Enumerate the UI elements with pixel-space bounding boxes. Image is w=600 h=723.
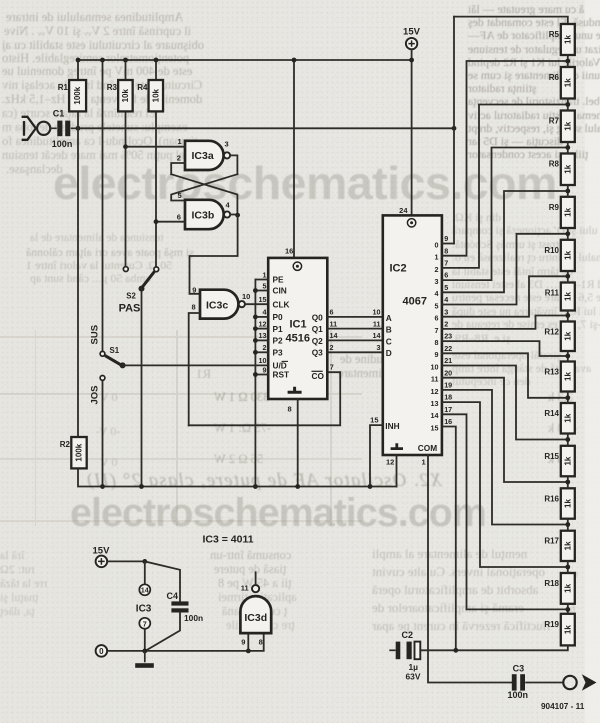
svg-text:11: 11: [431, 375, 439, 384]
svg-text:11: 11: [330, 319, 338, 328]
resistor R18 1k: [544, 573, 574, 604]
junction JOS column on rail: [100, 484, 105, 489]
svg-text:8: 8: [288, 405, 292, 414]
junction R4 bottom / IC3b pin6: [154, 219, 159, 224]
svg-text:2: 2: [177, 153, 181, 162]
S2 contact (R4 side): [154, 267, 159, 272]
IC1 left pin stubs: [255, 279, 268, 281]
svg-text:6: 6: [444, 271, 448, 280]
svg-text:1k: 1k: [563, 121, 572, 130]
svg-text:9: 9: [263, 365, 267, 374]
svg-text:9: 9: [444, 234, 448, 243]
svg-text:15: 15: [259, 295, 267, 304]
wire Q3 to IC2 address D: [327, 351, 383, 353]
svg-text:SUS: SUS: [90, 325, 101, 345]
svg-text:5: 5: [435, 301, 439, 310]
svg-text:8: 8: [259, 637, 263, 646]
svg-text:R3: R3: [107, 83, 118, 92]
svg-text:R10: R10: [544, 246, 559, 255]
svg-text:S2: S2: [126, 292, 136, 301]
wire channel 14 (pin 17) to ladder tap: [442, 414, 568, 609]
S1 common pivot: [120, 362, 126, 368]
svg-text:JOS: JOS: [90, 385, 101, 404]
wire ladder bottom to C2 node: [420, 645, 568, 650]
IC2 power symbol pin24: [407, 219, 415, 227]
IC U1 counter IC1 4516: [268, 258, 327, 399]
junction IC1 pin8 on rail: [295, 484, 300, 489]
svg-text:4516: 4516: [286, 333, 310, 345]
svg-text:22: 22: [444, 344, 452, 353]
svg-text:Q3: Q3: [312, 348, 323, 358]
svg-text:7: 7: [330, 362, 334, 371]
input jack terminal: [37, 122, 50, 135]
svg-text:9: 9: [241, 637, 245, 646]
resistor R9 1k: [549, 197, 575, 228]
junction ground node: [142, 649, 147, 654]
S1 lower contact JOS: [100, 376, 105, 381]
svg-text:15: 15: [431, 423, 439, 432]
svg-text:Q1: Q1: [312, 324, 323, 334]
svg-text:1µ: 1µ: [409, 662, 419, 672]
wire R3 column: [125, 60, 127, 80]
wire 15V to IC3 pin14 node: [107, 560, 145, 562]
svg-text:7: 7: [444, 259, 448, 268]
svg-text:C1: C1: [53, 109, 65, 119]
svg-text:IC3: IC3: [136, 604, 152, 615]
svg-text:6: 6: [330, 308, 334, 317]
wire S2 common to ground rail: [141, 289, 143, 487]
wire IC3c pin8 from CO feedback: [189, 313, 200, 425]
ground bottom rail: [78, 468, 397, 486]
wire channel 15 (pin 16) to ladder bottom: [442, 427, 456, 651]
svg-text:15: 15: [370, 416, 378, 425]
svg-text:R7: R7: [549, 117, 560, 126]
junction bus P1: [253, 326, 258, 331]
watermark row 1: [53, 156, 557, 210]
resistor R13 1k: [544, 362, 574, 392]
svg-text:IC3b: IC3b: [192, 209, 215, 221]
svg-text:A: A: [386, 313, 392, 323]
wire channel 6 (pin 3) to ladder tap: [442, 276, 568, 316]
wire Q2 to IC2 address C: [327, 339, 383, 341]
wire IC3c output to IC1 CLK: [246, 303, 268, 305]
wire IC3b pin6 input from R4: [156, 221, 185, 223]
svg-text:R13: R13: [544, 368, 559, 377]
junction bus P2: [253, 338, 258, 343]
wire IC1 pin16 riser from +15V rail: [293, 60, 295, 258]
svg-text:R8: R8: [549, 160, 560, 169]
wire channel 10 (pin 21) to ladder tap: [442, 366, 568, 440]
wire SUS column (+15V to S1 upper contact): [102, 60, 104, 351]
svg-text:IC1: IC1: [290, 319, 307, 331]
svg-text:1k: 1k: [563, 372, 572, 381]
junction S2 column on rail: [139, 484, 144, 489]
resistor R2 100k: [60, 437, 87, 468]
svg-text:10: 10: [259, 356, 267, 365]
wire ladder interconnect stubs: [567, 55, 569, 67]
IC3 pin 14 terminal: [144, 561, 146, 584]
svg-text:7: 7: [143, 619, 147, 628]
svg-text:R14: R14: [544, 409, 559, 418]
svg-text:RST: RST: [273, 370, 290, 380]
svg-text:PAS: PAS: [119, 303, 141, 315]
15V supply terminal: [406, 38, 417, 49]
svg-text:15V: 15V: [403, 27, 421, 38]
junction bus on ground rail: [253, 484, 258, 489]
wire IC3d pin9 stub: [247, 633, 249, 651]
svg-text:2: 2: [263, 343, 267, 352]
wire 15V riser to IC2 pin 24: [411, 49, 413, 215]
junction SUS column on rail: [100, 58, 105, 63]
svg-text:14: 14: [330, 331, 338, 340]
svg-text:CLK: CLK: [273, 299, 290, 309]
resistor R17 1k: [544, 531, 574, 561]
resistor R15 1k: [544, 446, 574, 477]
wire 0V ground line: [107, 633, 264, 651]
svg-text:6: 6: [177, 213, 181, 222]
svg-text:12: 12: [386, 458, 394, 467]
svg-text:1k: 1k: [563, 541, 572, 550]
wire supply node to C4: [145, 561, 180, 601]
svg-text:1k: 1k: [563, 456, 572, 465]
svg-text:1k: 1k: [563, 292, 572, 301]
svg-text:R12: R12: [544, 328, 559, 337]
junction R3 top on rail: [123, 58, 128, 63]
junction pin16 riser on rail: [292, 58, 297, 63]
svg-text:20: 20: [444, 368, 452, 377]
resistor R12 1k: [544, 322, 574, 352]
svg-text:R6: R6: [549, 73, 560, 82]
svg-text:R15: R15: [544, 452, 559, 461]
junction ladder tap: [565, 522, 570, 527]
watermark row 2: [70, 491, 486, 536]
IC1 power symbol pin16: [293, 262, 301, 270]
wire COM output to C3: [428, 455, 511, 683]
svg-text:1: 1: [435, 253, 439, 262]
svg-text:R17: R17: [544, 537, 559, 546]
svg-text:R11: R11: [545, 289, 560, 298]
svg-text:14: 14: [373, 331, 381, 340]
junction IC3d pin9: [246, 649, 251, 654]
svg-text:1k: 1k: [563, 499, 572, 508]
output jack terminal: [563, 676, 576, 689]
svg-text:12: 12: [431, 387, 439, 396]
wire cross-coupling diagonal IC3a.out to IC3b.5: [171, 174, 237, 200]
junction ladder tap: [565, 354, 570, 359]
NAND gate IC3a: [185, 141, 230, 170]
svg-text:R18: R18: [544, 579, 559, 588]
svg-text:16: 16: [285, 247, 293, 256]
svg-text:10: 10: [373, 308, 381, 317]
svg-text:R2: R2: [60, 440, 71, 449]
junction ladder tap: [565, 607, 570, 612]
svg-text:CIN: CIN: [273, 286, 287, 296]
input arrow symbol: [22, 117, 36, 140]
svg-text:C4: C4: [167, 591, 179, 601]
junction ladder tap: [565, 274, 570, 279]
wire cross-coupling diagonal IC3b.out to IC3a.2: [171, 174, 237, 215]
svg-text:0: 0: [99, 647, 104, 656]
resistor R11 1k: [545, 283, 575, 311]
junction ladder tap: [565, 313, 570, 318]
svg-text:4: 4: [263, 308, 267, 317]
+15V top supply rail: [78, 59, 412, 61]
junction ladder tap: [565, 59, 570, 64]
svg-text:100n: 100n: [508, 690, 529, 700]
wire IC3a pin1 input from R3: [126, 146, 186, 148]
svg-text:9: 9: [435, 350, 439, 359]
capacitor C3 100n: [512, 674, 564, 690]
wire channel 9 (pin 22) to ladder tap: [442, 353, 568, 398]
wire IC3b output to IC3c pin9: [231, 214, 238, 216]
svg-text:PE: PE: [273, 275, 285, 285]
svg-text:904107 - 11: 904107 - 11: [541, 702, 585, 711]
capacitor C1 100n: [50, 121, 77, 137]
wire channel 7 (pin 2) to ladder tap: [442, 316, 568, 329]
svg-text:10: 10: [242, 292, 250, 301]
svg-text:D: D: [386, 348, 392, 358]
svg-text:R19: R19: [544, 620, 559, 629]
svg-text:14: 14: [431, 411, 439, 420]
switch S2 arm: [142, 272, 154, 288]
svg-text:IC3 = 4011: IC3 = 4011: [203, 534, 254, 546]
svg-text:10k: 10k: [121, 88, 130, 102]
svg-text:P2: P2: [273, 336, 284, 346]
wire IC1 preset/reset bus to ground: [254, 280, 256, 487]
wire signal node line (C1 junction to ladder top): [78, 127, 454, 129]
svg-text:1k: 1k: [563, 331, 572, 340]
wire R1/R2 column: [77, 60, 79, 80]
svg-text:5: 5: [178, 191, 182, 200]
svg-text:100n: 100n: [184, 613, 203, 623]
junction R3 bottom / IC3a pin1: [123, 144, 128, 149]
ground symbol: [135, 651, 154, 668]
junction node X at channel-0 riser: [452, 126, 457, 131]
svg-text:13: 13: [431, 399, 439, 408]
wire IC3a pin2 input leg: [171, 163, 185, 174]
wire pin7 to ground node: [144, 629, 146, 651]
resistor R8 1k: [549, 154, 575, 186]
wire IC1 pin8 to ground rail: [297, 399, 299, 487]
svg-text:100k: 100k: [75, 443, 84, 461]
svg-text:R1: R1: [58, 83, 69, 92]
junction R4 top on rail: [154, 58, 159, 63]
wire IC2 pin12 to ground rail: [396, 455, 398, 487]
svg-text:9: 9: [192, 285, 196, 294]
S2 contact (R3 side): [123, 267, 128, 272]
svg-text:P1: P1: [273, 324, 284, 334]
svg-text:10: 10: [431, 362, 439, 371]
NAND gate IC3b: [185, 200, 230, 229]
junction INH on ground rail: [368, 484, 373, 489]
svg-text:1k: 1k: [563, 583, 572, 592]
svg-text:6: 6: [435, 314, 439, 323]
svg-text:63V: 63V: [406, 672, 421, 682]
svg-text:P3: P3: [273, 348, 284, 358]
svg-text:5: 5: [263, 281, 267, 290]
svg-text:B: B: [386, 325, 392, 335]
resistor R19 1k: [544, 614, 574, 646]
junction bus P0: [253, 315, 258, 320]
svg-text:8: 8: [192, 303, 196, 312]
svg-text:1k: 1k: [563, 625, 572, 634]
svg-text:3: 3: [225, 139, 229, 148]
svg-text:1: 1: [263, 270, 267, 279]
svg-text:1: 1: [422, 458, 426, 467]
svg-text:1k: 1k: [563, 164, 572, 173]
junction ladder tap: [565, 145, 570, 150]
svg-text:8: 8: [435, 338, 439, 347]
svg-text:7: 7: [435, 326, 439, 335]
svg-text:4067: 4067: [403, 296, 427, 308]
wire Q0 to IC2 address A: [327, 316, 383, 318]
svg-text:3: 3: [435, 277, 439, 286]
svg-text:13: 13: [259, 331, 267, 340]
svg-text:0: 0: [435, 240, 439, 249]
0V terminal: [96, 645, 108, 657]
svg-text:R16: R16: [544, 494, 559, 503]
junction IC3 supply node: [142, 559, 147, 564]
junction ladder bottom / ch15: [453, 648, 458, 653]
svg-text:11: 11: [373, 319, 381, 328]
capacitor C4 100n: [171, 601, 188, 612]
svg-text:5: 5: [444, 283, 448, 292]
S1 upper contact SUS: [100, 351, 105, 356]
resistor R7 1k: [549, 111, 575, 143]
svg-text:P0: P0: [273, 312, 284, 322]
wire channel 13 (pin 18) to ladder tap: [442, 402, 568, 567]
wire channel 8 (pin 23) to ladder tap: [442, 341, 568, 356]
resistor R3 10k: [107, 80, 133, 111]
resistor R10 1k: [544, 240, 574, 271]
svg-text:23: 23: [444, 332, 452, 341]
svg-text:1k: 1k: [563, 250, 572, 259]
svg-text:Q0: Q0: [312, 312, 323, 322]
svg-text:8: 8: [444, 246, 448, 255]
wire channel 11 (pin 20) to ladder tap: [442, 378, 568, 482]
junction ladder tap: [565, 189, 570, 194]
svg-text:17: 17: [444, 405, 452, 414]
svg-text:2: 2: [330, 343, 334, 352]
wire C4 to ground node: [147, 613, 181, 651]
svg-text:R5: R5: [549, 30, 560, 39]
svg-text:14: 14: [141, 586, 149, 595]
svg-text:R4: R4: [137, 83, 148, 92]
junction R1 top on rail: [76, 58, 81, 63]
svg-text:4: 4: [444, 295, 448, 304]
svg-text:100n: 100n: [52, 139, 73, 149]
svg-text:12: 12: [259, 319, 267, 328]
junction IC3b output node: [235, 213, 240, 218]
resistor R4 10k: [137, 80, 163, 111]
svg-text:2: 2: [444, 320, 448, 329]
svg-text:1k: 1k: [563, 78, 572, 87]
svg-text:3: 3: [377, 343, 381, 352]
junction ladder tap: [565, 480, 570, 485]
junction bus P3: [253, 350, 258, 355]
resistor R6 1k: [549, 67, 575, 99]
NAND gate IC3c: [200, 290, 245, 319]
svg-text:16: 16: [444, 417, 452, 426]
svg-text:1k: 1k: [563, 207, 572, 216]
wire IC3a output leg: [231, 155, 238, 174]
svg-text:R9: R9: [549, 203, 560, 212]
wire channel 4 (pin 5) to ladder tap: [442, 191, 568, 292]
svg-text:21: 21: [444, 356, 452, 365]
IC3 pin 7 terminal: [139, 618, 150, 629]
resistor R16 1k: [544, 488, 574, 518]
IC U2 multiplexer IC2 4067: [383, 215, 442, 455]
wire channel 3 (pin 6) to ladder tap: [442, 148, 568, 281]
wire channel 0 (pin 9) to ladder top / node X: [442, 243, 454, 245]
svg-text:10k: 10k: [151, 88, 160, 102]
svg-text:18: 18: [444, 393, 452, 402]
svg-text:4: 4: [435, 289, 439, 298]
wire JOS column (S1 lower contact to ground): [102, 380, 104, 486]
svg-text:S1: S1: [110, 346, 120, 355]
svg-text:2: 2: [435, 265, 439, 274]
wire IC1 CO feedback line: [189, 372, 341, 425]
switch S1 arm: [105, 356, 121, 365]
svg-text:1k: 1k: [563, 35, 572, 44]
svg-text:C3: C3: [513, 664, 525, 674]
IC2 ground symbol: [391, 443, 403, 448]
svg-text:3: 3: [444, 307, 448, 316]
S2 common pivot: [139, 286, 145, 292]
wire S1 common to IC1 U/D pin: [123, 364, 269, 366]
capacitor C2 1u electrolytic: [389, 642, 420, 660]
wire channel 2 (pin 7) to ladder tap: [442, 105, 568, 268]
svg-text:CO: CO: [312, 371, 325, 381]
svg-text:19: 19: [444, 381, 452, 390]
svg-text:1k: 1k: [563, 413, 572, 422]
junction ladder tap: [565, 395, 570, 400]
wire Q1 to IC2 address B: [327, 328, 383, 330]
resistor R5 1k: [549, 24, 575, 55]
IC2 INH input: [370, 425, 383, 486]
svg-text:IC2: IC2: [390, 263, 407, 275]
svg-text:COM: COM: [418, 443, 437, 453]
junction node X at R1 column: [76, 126, 81, 131]
svg-text:IC3d: IC3d: [244, 612, 267, 624]
junction ladder tap: [565, 231, 570, 236]
svg-text:INH: INH: [385, 421, 399, 431]
wire R4 column: [155, 60, 157, 80]
resistor R14 1k: [544, 403, 574, 434]
svg-text:100k: 100k: [73, 86, 82, 104]
output arrow symbol: [582, 674, 597, 690]
svg-text:C2: C2: [402, 630, 414, 640]
junction ladder tap: [565, 565, 570, 570]
wire channel 12 (pin 19) to ladder tap: [442, 390, 568, 525]
junction bus CIN: [253, 288, 258, 293]
svg-text:IC3a: IC3a: [192, 150, 214, 162]
IC1 ground symbol: [288, 387, 302, 393]
wire channel 1 (pin 8) to ladder tap: [442, 61, 568, 256]
wire channel 5 (pin 4) to ladder tap: [442, 234, 568, 305]
svg-text:Q2: Q2: [312, 336, 323, 346]
svg-text:24: 24: [399, 206, 408, 215]
junction 15V rail: [409, 58, 414, 63]
wire IC3d output pin 11: [255, 572, 257, 585]
svg-text:C: C: [386, 336, 392, 346]
junction bus RST: [253, 372, 258, 377]
svg-text:4: 4: [226, 200, 231, 209]
svg-text:IC3c: IC3c: [206, 299, 228, 311]
svg-text:1: 1: [178, 137, 182, 146]
resistor R1 100k: [58, 80, 86, 111]
junction ladder tap: [565, 437, 570, 442]
